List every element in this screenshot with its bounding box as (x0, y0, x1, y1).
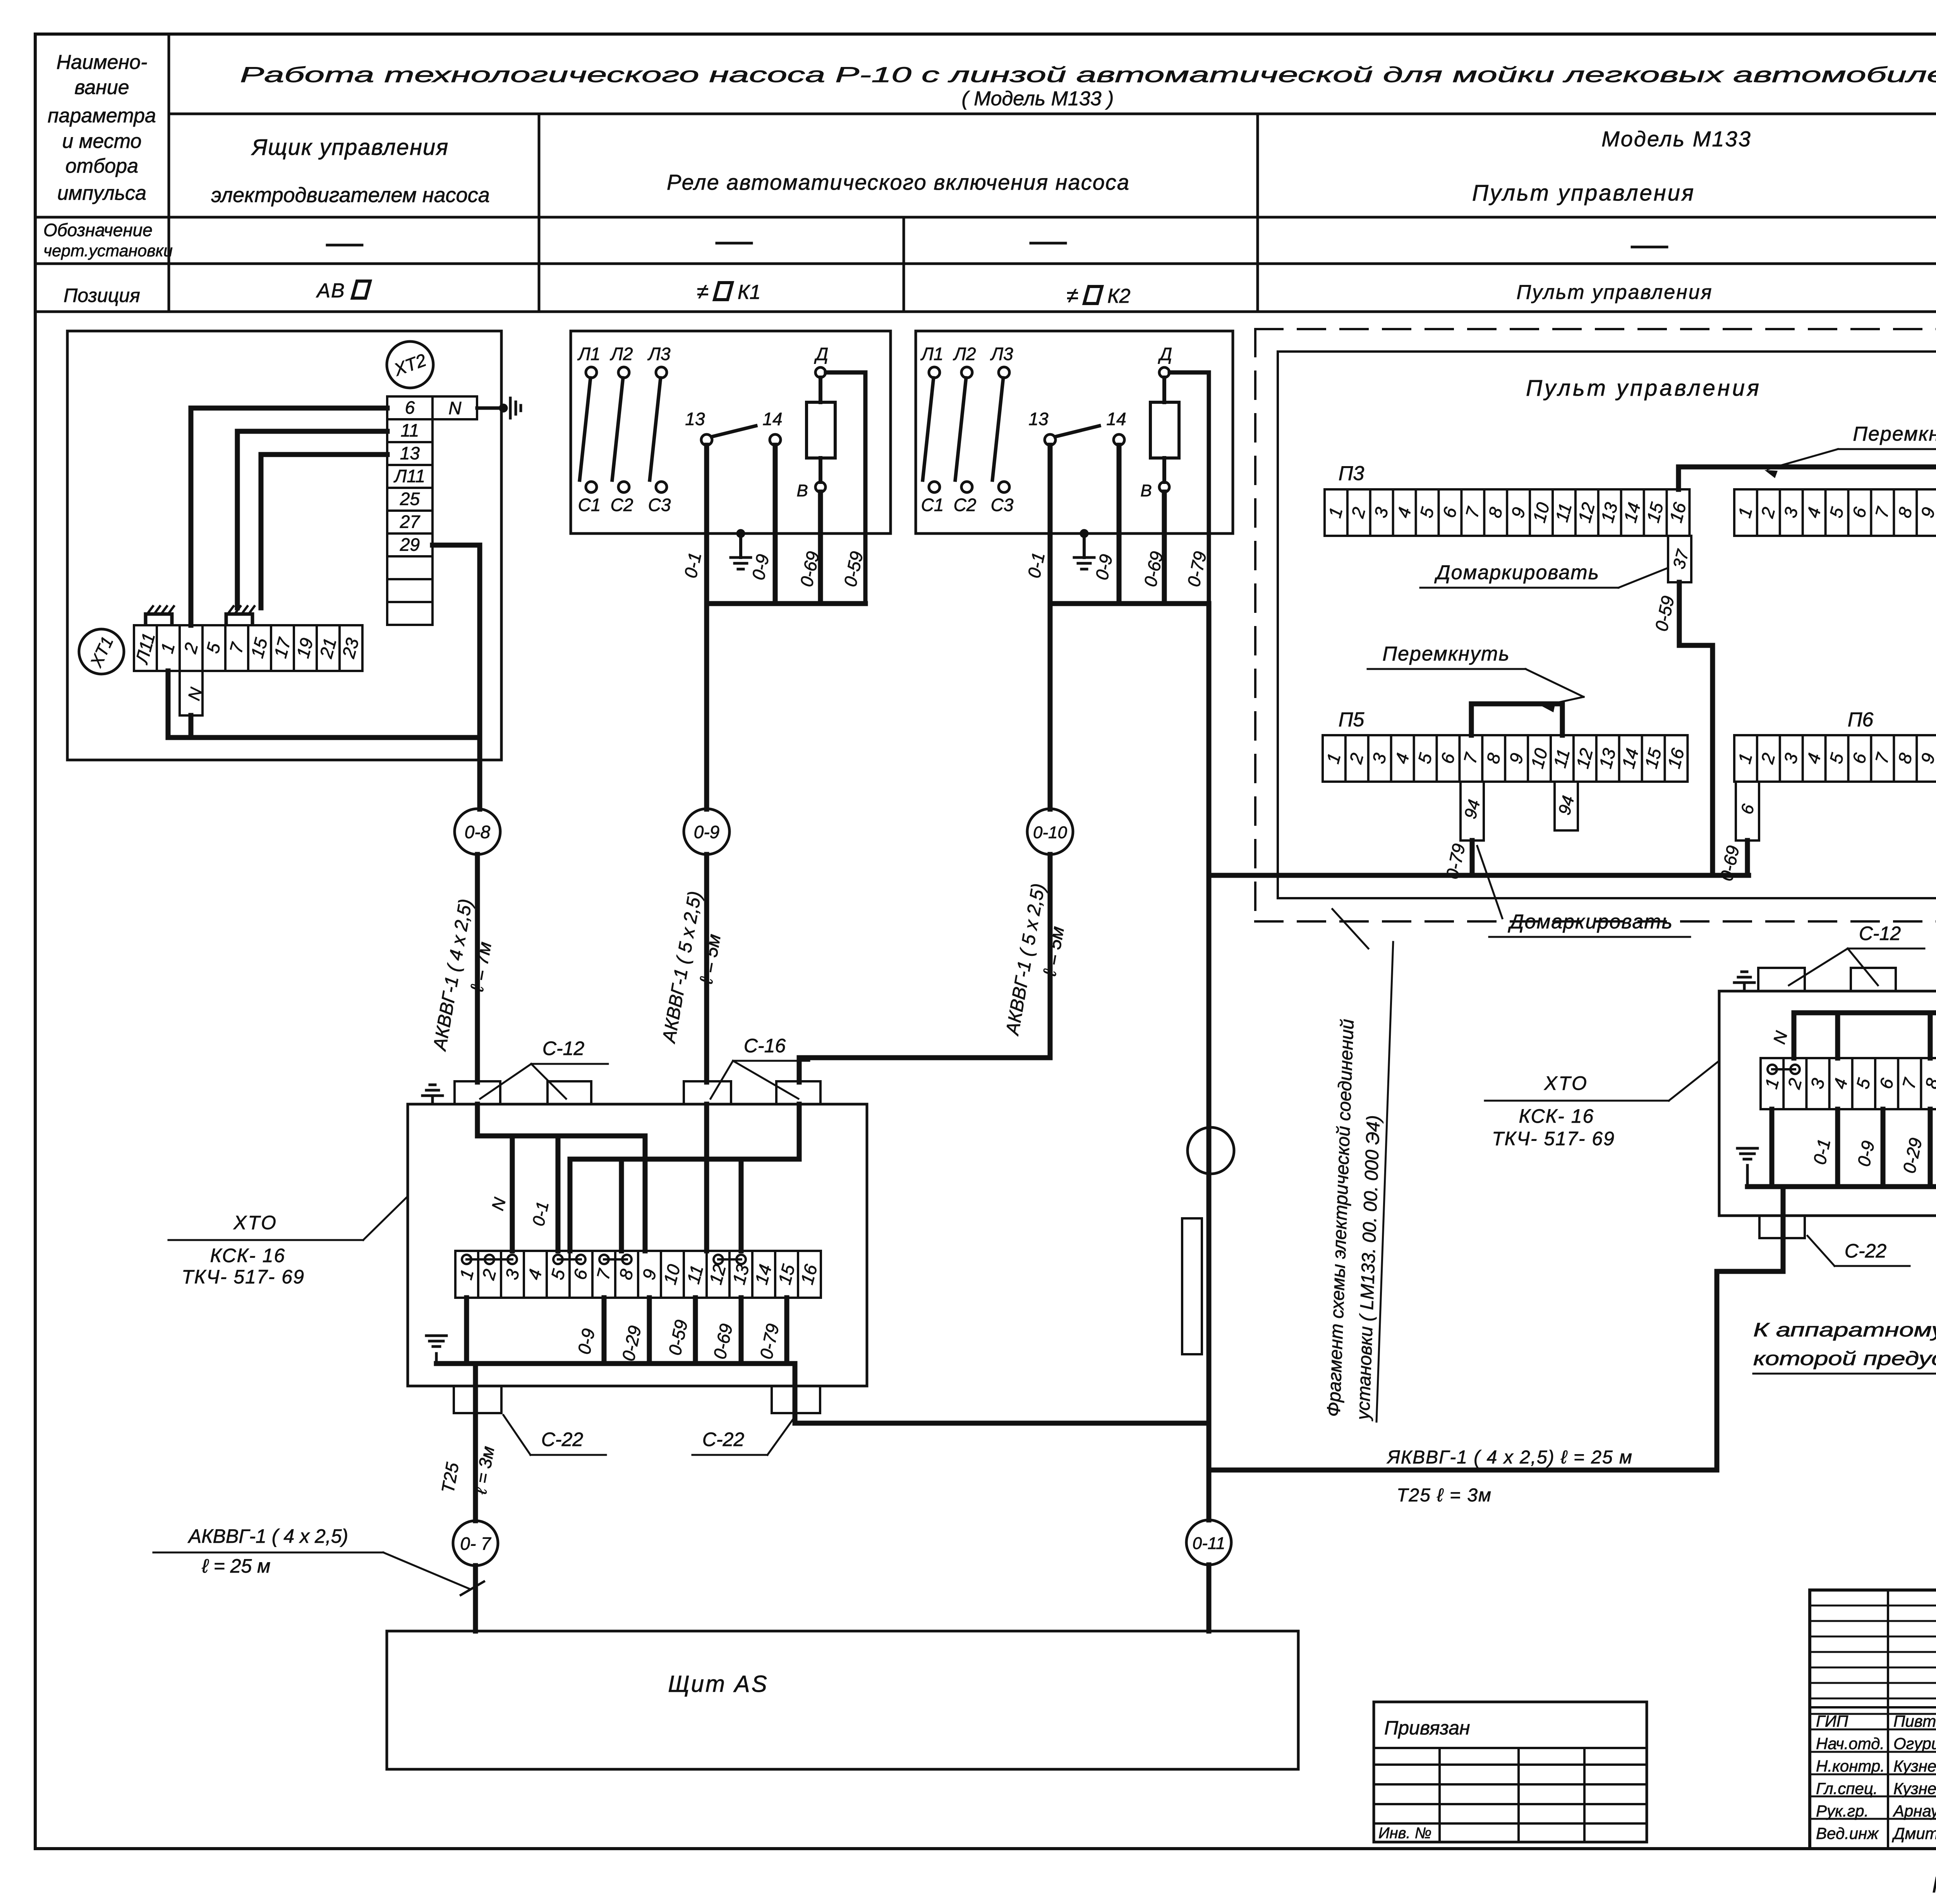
wire P5-94 down (1470, 841, 1475, 875)
svg-text:С3: С3 (991, 495, 1014, 515)
svg-text:Л1: Л1 (920, 344, 943, 364)
svg-text:отбора: отбора (65, 155, 138, 177)
svg-text:Перемкнуть: Перемкнуть (1382, 643, 1510, 665)
svg-text:С2: С2 (611, 495, 633, 515)
svg-text:ЯКВВГ-1 ( 4 х 2,5) ℓ = 25 м: ЯКВВГ-1 ( 4 х 2,5) ℓ = 25 м (1386, 1447, 1633, 1468)
cable 0-9 down (704, 854, 709, 1082)
svg-text:13: 13 (1028, 409, 1049, 429)
right XTO top connectors (1758, 968, 1805, 991)
ground right XTO top (1743, 983, 1746, 991)
contact Л3 K1 (656, 367, 667, 378)
wire 0-7 to shield (473, 1566, 478, 1631)
row3 dashes (327, 244, 362, 247)
svg-text:электродвигателем насоса: электродвигателем насоса (211, 184, 489, 207)
cable marker circle (1188, 1127, 1234, 1174)
svg-text:0- 7: 0- 7 (460, 1533, 491, 1554)
inner bus2 left XTO (570, 1157, 799, 1162)
svg-text:Гл.спец.: Гл.спец. (1816, 1779, 1878, 1798)
wire 0-9 inside (704, 1104, 709, 1251)
left XTO top connectors (455, 1081, 500, 1104)
wire trunk to right branch (1209, 1216, 1783, 1470)
svg-text:П6: П6 (1848, 708, 1874, 731)
svg-text:Работа технологического на: Работа технологического насоса Р-10 с ли… (240, 62, 1936, 87)
svg-text:ХТО: ХТО (1544, 1072, 1588, 1094)
svg-text:КСК- 16: КСК- 16 (210, 1245, 286, 1266)
lower bus left XTO (467, 1361, 795, 1366)
cable designation bar vertical (1182, 1218, 1202, 1354)
svg-text:13: 13 (400, 443, 420, 463)
wire XT2-6 to XT1-2 left (191, 408, 387, 625)
svg-text:13: 13 (685, 409, 705, 429)
exit wire right from left XTO (795, 1364, 1209, 1423)
contact 13-14 K1 (701, 434, 712, 445)
0-9 circle (684, 809, 729, 854)
svg-text:параметра: параметра (48, 105, 156, 127)
svg-text:Инв. №: Инв. № (1378, 1825, 1431, 1842)
svg-text:Пульт управления: Пульт управления (1517, 281, 1713, 304)
wires below strip right XTO (1835, 1109, 1840, 1187)
ground junction K2 (1080, 529, 1088, 538)
svg-text:Л3: Л3 (990, 344, 1013, 364)
svg-text:С-22: С-22 (1845, 1240, 1887, 1262)
svg-text:27: 27 (400, 512, 420, 532)
stamp signature rows (1810, 1729, 1936, 1731)
jumper circles right XTO (1768, 1065, 1777, 1074)
svg-text:Ящик управления: Ящик управления (251, 135, 449, 160)
svg-text:Кузнецов: Кузнецов (1893, 1779, 1936, 1798)
svg-text:ТКЧ- 517- 69: ТКЧ- 517- 69 (182, 1266, 305, 1288)
P5 jumper bracket (1471, 704, 1562, 735)
ground junction K1 (736, 529, 745, 538)
wires below strip left XTO (602, 1298, 607, 1364)
svg-text:Пульт управления: Пульт управления (1472, 180, 1695, 206)
contact Л1 K2 (929, 367, 940, 378)
XT1 terminal strip left (134, 625, 362, 671)
svg-text:В: В (796, 481, 808, 500)
XT2 circle left (387, 341, 433, 388)
wire XT2-11 left (237, 431, 387, 608)
svg-text:С3: С3 (648, 495, 671, 515)
wire P6-6 down (1745, 841, 1750, 875)
shield hatch above XT1 cell7 left (226, 614, 252, 624)
exit wires right XTO (1781, 1187, 1786, 1271)
P6 cell 6 (1736, 782, 1759, 841)
shield hatch above XT1 cell1 left (146, 614, 172, 624)
P5 cell 94 right (1555, 782, 1578, 830)
svg-text:и место: и место (62, 130, 141, 153)
svg-text:0-10: 0-10 (1033, 823, 1068, 842)
P3 cell 37 (1668, 536, 1691, 582)
fragment note diagonal (1332, 909, 1368, 949)
svg-text:черт.установки: черт.установки (43, 242, 173, 260)
svg-text:Л2: Л2 (953, 344, 976, 364)
svg-text:Кузнецов: Кузнецов (1893, 1757, 1936, 1775)
svg-text:25: 25 (400, 489, 420, 509)
wire 0-8 inside (477, 1104, 645, 1251)
svg-text:Реле автоматического включени: Реле автоматического включения насоса (667, 170, 1130, 194)
ground at left XTO top (431, 1096, 434, 1104)
contact Л3 K2 (999, 367, 1009, 378)
XT2 N cell left (433, 396, 477, 419)
svg-text:Перемкнуть: Перемкнуть (1853, 423, 1936, 445)
coil Д K1 (815, 367, 826, 377)
svg-text:П3: П3 (1339, 462, 1364, 485)
right XTO enclosure (1719, 991, 1936, 1216)
contact Л2 K2 (961, 367, 972, 378)
exit wire to 0-7 (473, 1364, 478, 1521)
svg-text:импульса: импульса (57, 182, 146, 204)
0-8 circle (455, 809, 500, 854)
svg-text:Домаркировать: Домаркировать (1434, 561, 1600, 584)
left XTO enclosure (408, 1104, 867, 1386)
svg-text:14: 14 (1106, 409, 1126, 429)
svg-text:Пульт управления: Пульт управления (1526, 376, 1761, 401)
svg-text:К1: К1 (738, 281, 761, 304)
inner bus right XTO (1794, 1010, 1936, 1015)
svg-text:Домаркировать: Домаркировать (1508, 911, 1673, 933)
svg-text:ГИП: ГИП (1816, 1712, 1848, 1730)
svg-text:С2: С2 (954, 495, 977, 515)
svg-text:Пивторак: Пивторак (1893, 1712, 1936, 1730)
svg-text:14: 14 (762, 409, 782, 429)
svg-text:Наимено-: Наимено- (57, 51, 148, 74)
svg-text:К2: К2 (1107, 285, 1131, 307)
collector bus K1 (707, 601, 865, 606)
wire 0-11 to shield (1207, 1565, 1212, 1631)
svg-text:С-22: С-22 (541, 1429, 584, 1450)
svg-text:Позиция: Позиция (64, 285, 140, 306)
svg-text:Д: Д (1158, 344, 1172, 364)
svg-text:ТКЧ- 517- 69: ТКЧ- 517- 69 (1492, 1128, 1615, 1149)
svg-text:Щит АS: Щит АS (668, 1671, 768, 1697)
svg-text:С-12: С-12 (1859, 923, 1901, 944)
svg-text:С1: С1 (578, 495, 601, 515)
svg-text:Д: Д (814, 344, 828, 364)
svg-text:Рук.гр.: Рук.гр. (1816, 1802, 1869, 1820)
relay box K1 (571, 331, 891, 533)
svg-text:29: 29 (400, 535, 420, 555)
svg-text:Нач.отд.: Нач.отд. (1816, 1734, 1885, 1753)
svg-text:6: 6 (405, 398, 415, 418)
svg-text:которой предусматривает авто: которой предусматривает автоматическое у… (1753, 1348, 1936, 1369)
privyazan table (1374, 1702, 1647, 1842)
lower bus right XTO (1747, 1184, 1936, 1189)
stamp narrow rows (1810, 1605, 1936, 1607)
svg-text:Т25 ℓ = 3м: Т25 ℓ = 3м (1397, 1485, 1492, 1506)
0-10 circle (1027, 809, 1073, 854)
wire 0-10 inside (797, 1104, 802, 1159)
svg-text:Н.контр.: Н.контр. (1816, 1757, 1885, 1775)
relay box K2 (916, 331, 1233, 533)
stamp left columns (1887, 1590, 1889, 1849)
right XTO terminal strip (1761, 1058, 1936, 1109)
sheet frame (35, 33, 1936, 36)
shield AS box (387, 1631, 1298, 1769)
svg-text:Привязан: Привязан (1384, 1717, 1470, 1739)
XT1 N cell left (180, 671, 203, 715)
svg-text:ХТО: ХТО (233, 1212, 278, 1233)
svg-text:Л1: Л1 (577, 344, 600, 364)
wire XT1 bottom bus left (168, 671, 480, 738)
svg-text:Модель М133: Модель М133 (1601, 127, 1752, 151)
ground inside left XTO (435, 1353, 438, 1364)
0-7 circle (453, 1521, 498, 1566)
svg-text:П5: П5 (1339, 708, 1365, 731)
wire XT2-13 left (261, 455, 387, 608)
svg-text:Дмитриева: Дмитриева (1892, 1824, 1936, 1842)
left XTO terminal strip (455, 1251, 821, 1298)
wire K2 to pult bus (1207, 604, 1212, 875)
svg-text:≠: ≠ (1067, 283, 1079, 307)
cable 0-10 down-left (799, 854, 1050, 1082)
0-11 circle (1186, 1520, 1231, 1565)
wires down K2 (1048, 445, 1053, 809)
svg-text:0-11: 0-11 (1193, 1534, 1225, 1553)
svg-text:Копировал Волкова: Копировал Волкова (1932, 1872, 1936, 1897)
contact 13-14 K2 (1045, 434, 1056, 445)
wire P3-37 down (1679, 582, 1713, 875)
main vertical cable trunk (1207, 875, 1212, 1470)
header table grid (168, 34, 170, 312)
svg-text:вание: вание (74, 76, 129, 99)
P5 cell 94 left (1461, 782, 1484, 841)
svg-text:КСК- 16: КСК- 16 (1519, 1105, 1594, 1127)
svg-text:К аппаратному шкафу установк: К аппаратному шкафу установки для мойки … (1753, 1319, 1936, 1341)
ground inside right XTO (1746, 1165, 1749, 1187)
pult outer dashed box (1255, 328, 1936, 330)
svg-text:С-12: С-12 (542, 1038, 585, 1059)
stamp outer (1810, 1590, 1936, 1849)
coil Д K2 (1159, 367, 1169, 377)
wire Д right K2 (1170, 372, 1209, 604)
bottom connectors left XTO (454, 1386, 501, 1413)
svg-text:Вед.инж: Вед.инж (1816, 1824, 1879, 1842)
svg-text:0-9: 0-9 (694, 822, 719, 842)
svg-text:АВ: АВ (316, 280, 345, 302)
pult solid box (1278, 352, 1936, 898)
svg-text:0-8: 0-8 (465, 822, 491, 842)
svg-text:Л3: Л3 (647, 344, 671, 364)
svg-text:Обозначение: Обозначение (43, 220, 153, 240)
svg-text:( Модель М133 ): ( Модель М133 ) (962, 87, 1114, 110)
wires down K1 (704, 445, 709, 809)
svg-text:С-22: С-22 (702, 1429, 745, 1450)
svg-text:ℓ = 25 м: ℓ = 25 м (202, 1555, 271, 1577)
collector bus K2 (1050, 601, 1209, 606)
svg-text:АКВВГ-1 ( 4 х 2,5): АКВВГ-1 ( 4 х 2,5) (187, 1525, 348, 1547)
svg-text:В: В (1140, 481, 1152, 500)
jumper circles left XTO (462, 1255, 471, 1264)
contact Л1 K1 (586, 367, 597, 378)
svg-text:С-16: С-16 (744, 1035, 786, 1057)
svg-text:Л2: Л2 (609, 344, 633, 364)
XT1 circle left (79, 629, 124, 674)
cable 0-8 down (475, 854, 480, 1082)
svg-text:С1: С1 (921, 495, 944, 515)
wire Д right K1 (826, 372, 865, 604)
svg-text:Л11: Л11 (393, 466, 425, 486)
pult bottom bus (1209, 873, 1749, 878)
svg-text:11: 11 (401, 420, 419, 441)
bottom connectors right XTO (1759, 1216, 1805, 1238)
jumper wire P3-16 to P4-14 (1679, 467, 1936, 489)
ground at XT2 left (477, 407, 503, 410)
wire XT2-29 to 0-8 left (433, 545, 480, 809)
wire N to cell3 (510, 1136, 515, 1251)
contact Л2 K1 (618, 367, 629, 378)
svg-text:Огурцов: Огурцов (1893, 1734, 1936, 1753)
svg-text:N: N (448, 398, 462, 418)
left terminal box enclosure (67, 331, 501, 760)
svg-text:Арнаутова: Арнаутова (1892, 1802, 1936, 1820)
XT2 terminal strip left (387, 396, 433, 625)
wire 0-1 to cell5 (556, 1136, 561, 1251)
svg-text:≠: ≠ (697, 279, 709, 304)
